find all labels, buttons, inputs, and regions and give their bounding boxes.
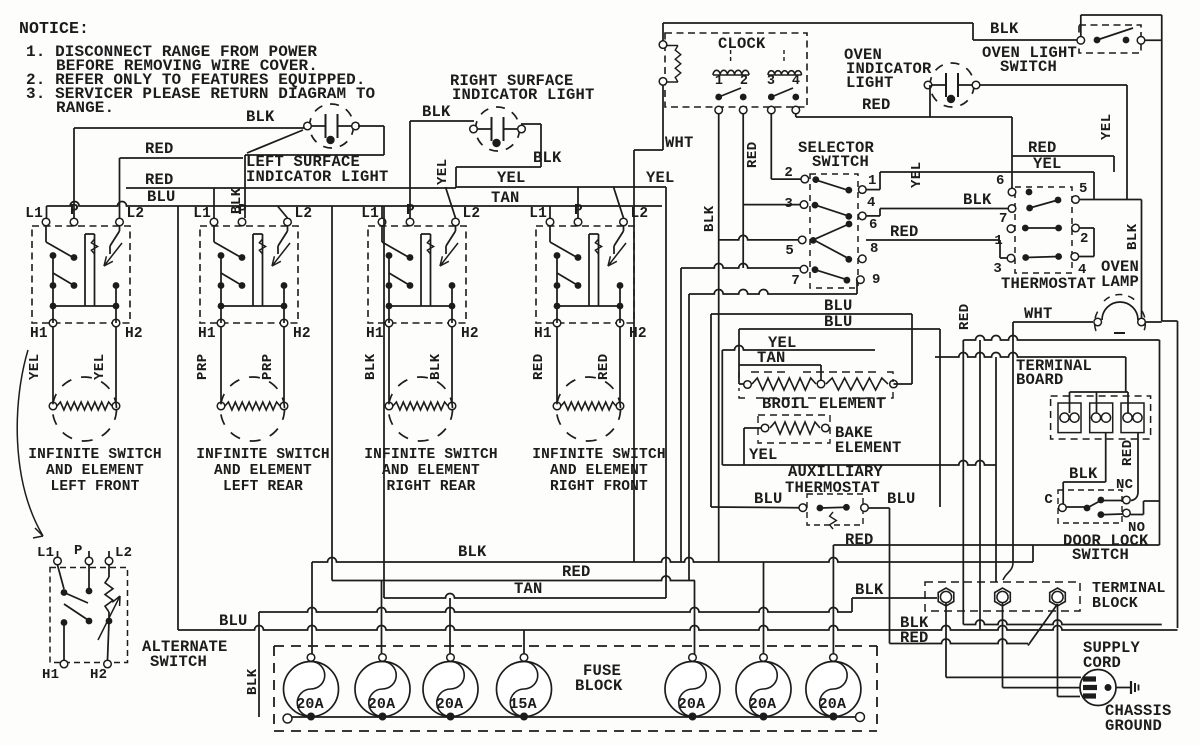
svg-text:BLK: BLK [702,205,718,232]
svg-text:1: 1 [994,233,1003,249]
svg-text:L2: L2 [295,206,313,222]
svg-text:L1: L1 [37,545,54,561]
svg-text:BLOCK: BLOCK [1092,595,1138,612]
svg-text:YEL: YEL [1099,113,1115,140]
svg-text:L2: L2 [127,206,145,222]
svg-text:WHT: WHT [1024,305,1053,323]
svg-text:20A: 20A [749,696,777,713]
svg-text:RED: RED [145,171,174,189]
svg-text:H2: H2 [125,326,143,342]
svg-text:INFINITE SWITCH: INFINITE SWITCH [532,447,666,463]
svg-text:8: 8 [870,241,879,257]
svg-text:P: P [70,203,79,219]
svg-text:BLK: BLK [458,543,487,561]
svg-text:L1: L1 [193,206,211,222]
svg-text:BLK: BLK [246,108,275,126]
svg-text:RED: RED [845,531,874,549]
svg-text:YEL: YEL [92,353,108,380]
svg-text:P: P [74,543,83,559]
svg-text:INFINITE SWITCH: INFINITE SWITCH [28,447,162,463]
svg-text:4: 4 [867,195,876,211]
svg-text:H2: H2 [90,667,107,683]
svg-text:BLK: BLK [245,668,261,695]
svg-text:6: 6 [869,217,878,233]
svg-text:20A: 20A [368,696,396,713]
svg-text:L2: L2 [115,545,132,561]
svg-text:SWITCH: SWITCH [1000,58,1057,76]
svg-text:BLK: BLK [855,581,884,599]
svg-text:PRP: PRP [195,353,211,380]
svg-text:H1: H1 [366,326,384,342]
svg-text:YEL: YEL [749,446,778,464]
svg-text:RED: RED [745,141,761,168]
svg-text:20A: 20A [678,696,706,713]
svg-text:AND ELEMENT: AND ELEMENT [214,463,312,479]
svg-text:BLK: BLK [363,353,379,380]
svg-text:BLK: BLK [422,103,451,121]
svg-text:RED: RED [531,353,547,380]
svg-text:YEL: YEL [909,161,925,188]
svg-text:AND ELEMENT: AND ELEMENT [46,463,144,479]
svg-text:TAN: TAN [514,580,543,598]
svg-text:1: 1 [868,173,877,189]
svg-text:BLU: BLU [219,612,248,630]
svg-text:INDICATOR LIGHT: INDICATOR LIGHT [452,86,595,104]
svg-text:P: P [574,203,583,219]
svg-text:BOARD: BOARD [1016,371,1064,389]
svg-text:RED: RED [1028,139,1057,157]
svg-text:RED: RED [562,563,591,581]
svg-text:9: 9 [872,272,881,288]
svg-text:SWITCH: SWITCH [1072,546,1129,564]
svg-text:L1: L1 [361,206,379,222]
svg-text:BLK: BLK [1125,223,1141,250]
svg-text:3: 3 [767,74,775,89]
svg-text:NOTICE:: NOTICE: [19,19,89,38]
svg-text:H1: H1 [198,326,216,342]
svg-text:L1: L1 [529,206,547,222]
svg-text:H2: H2 [629,326,647,342]
svg-text:RED: RED [596,353,612,380]
svg-text:INDICATOR LIGHT: INDICATOR LIGHT [246,168,389,186]
svg-text:BLK: BLK [428,353,444,380]
svg-text:BROIL ELEMENT: BROIL ELEMENT [762,395,886,413]
svg-text:BLK: BLK [990,20,1019,38]
svg-text:RED: RED [1120,439,1136,466]
svg-text:LAMP: LAMP [1101,273,1139,291]
svg-text:BLU: BLU [887,490,916,508]
svg-text:LEFT REAR: LEFT REAR [223,479,303,495]
svg-text:20A: 20A [296,696,324,713]
svg-text:YEL: YEL [497,169,526,187]
svg-text:TAN: TAN [757,349,786,367]
svg-text:BLK: BLK [1069,465,1098,483]
svg-text:H1: H1 [42,667,59,683]
svg-text:SWITCH: SWITCH [150,653,207,671]
svg-text:SWITCH: SWITCH [812,153,869,171]
svg-text:LIGHT: LIGHT [846,74,894,92]
svg-text:L2: L2 [463,206,481,222]
svg-text:L1: L1 [25,206,43,222]
svg-text:H2: H2 [461,326,479,342]
svg-text:7: 7 [999,211,1008,227]
svg-text:INFINITE SWITCH: INFINITE SWITCH [196,447,330,463]
svg-text:C: C [1044,492,1053,508]
svg-text:P: P [406,203,415,219]
svg-text:RANGE.: RANGE. [56,99,114,117]
svg-text:5: 5 [1079,181,1088,197]
svg-text:20A: 20A [819,696,847,713]
svg-text:WHT: WHT [665,134,694,152]
svg-text:YEL: YEL [1033,155,1062,173]
svg-text:BLU: BLU [754,490,783,508]
svg-text:BLK: BLK [963,191,992,209]
svg-text:20A: 20A [436,696,464,713]
svg-text:P: P [238,203,247,219]
svg-text:RED: RED [145,140,174,158]
svg-text:H1: H1 [30,326,48,342]
svg-text:GROUND: GROUND [1105,717,1162,735]
svg-text:15A: 15A [509,696,537,713]
svg-text:YEL: YEL [646,169,675,187]
svg-text:BLU: BLU [824,313,853,331]
svg-text:BLK: BLK [533,149,562,167]
svg-text:THERMOSTAT: THERMOSTAT [1001,275,1096,293]
svg-text:H2: H2 [293,326,311,342]
svg-text:RIGHT REAR: RIGHT REAR [386,479,475,495]
svg-text:7: 7 [791,273,800,289]
svg-text:YEL: YEL [435,158,451,185]
svg-text:H1: H1 [534,326,552,342]
svg-text:2: 2 [1080,231,1089,247]
svg-text:RED: RED [862,96,891,114]
svg-text:4: 4 [792,74,800,89]
svg-text:ELEMENT: ELEMENT [835,439,902,457]
svg-text:CLOCK: CLOCK [718,35,766,53]
svg-text:AND ELEMENT: AND ELEMENT [382,463,480,479]
svg-text:RED: RED [957,303,973,330]
svg-text:TAN: TAN [491,189,520,207]
svg-text:BLU: BLU [147,188,176,206]
svg-text:6: 6 [996,173,1005,189]
svg-text:PRP: PRP [260,353,276,380]
svg-text:1: 1 [715,74,723,89]
svg-text:LEFT FRONT: LEFT FRONT [50,479,139,495]
svg-text:5: 5 [785,243,794,259]
svg-text:YEL: YEL [27,353,43,380]
svg-text:BLOCK: BLOCK [575,677,623,695]
svg-text:2: 2 [740,74,748,89]
svg-text:RED: RED [890,223,919,241]
